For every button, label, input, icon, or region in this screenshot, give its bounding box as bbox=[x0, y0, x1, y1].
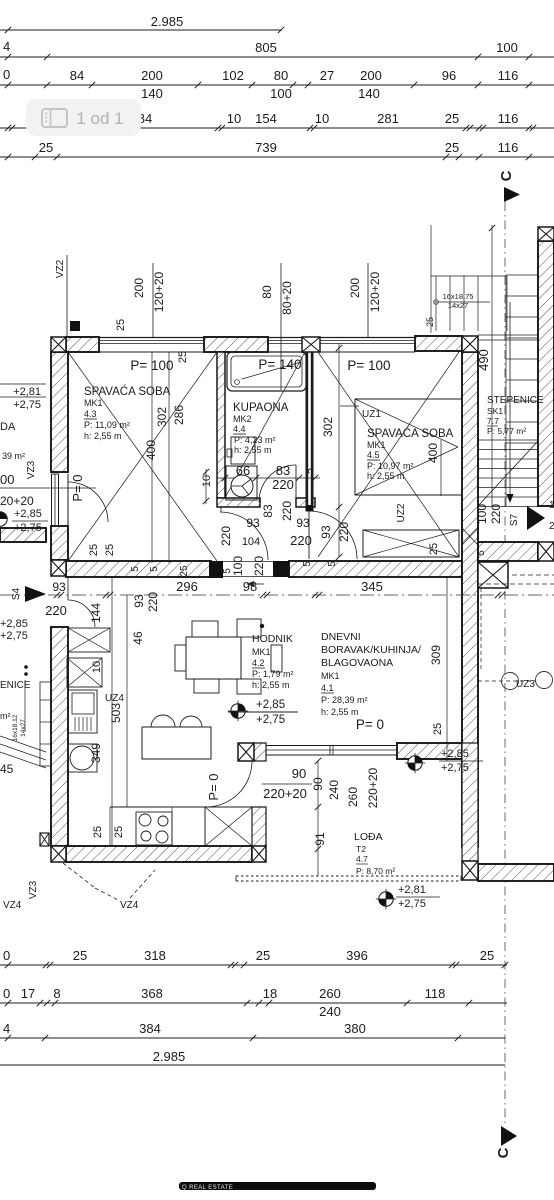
svg-text:25: 25 bbox=[425, 317, 435, 327]
svg-text:220: 220 bbox=[146, 592, 160, 612]
svg-text:220+20: 220+20 bbox=[366, 767, 380, 808]
svg-text:118: 118 bbox=[425, 986, 446, 1001]
svg-text:93: 93 bbox=[52, 580, 66, 594]
svg-text:MK1: MK1 bbox=[84, 398, 103, 408]
svg-text:25: 25 bbox=[480, 948, 494, 963]
svg-text:14x27: 14x27 bbox=[20, 719, 27, 737]
svg-text:20+20: 20+20 bbox=[0, 494, 34, 508]
svg-text:1: 1 bbox=[549, 500, 554, 511]
svg-text:LOĐA: LOĐA bbox=[354, 831, 383, 843]
svg-text:VZ3: VZ3 bbox=[26, 460, 37, 479]
svg-text:27: 27 bbox=[320, 68, 334, 83]
svg-text:SPAVAĆA SOBA: SPAVAĆA SOBA bbox=[367, 427, 454, 440]
svg-text:HODNIK: HODNIK bbox=[252, 633, 293, 645]
svg-text:345: 345 bbox=[361, 579, 383, 594]
svg-text:SK1: SK1 bbox=[487, 406, 503, 416]
svg-text:25: 25 bbox=[445, 140, 459, 155]
svg-text:93: 93 bbox=[246, 516, 260, 530]
svg-text:2.985: 2.985 bbox=[153, 1049, 186, 1064]
svg-text:98: 98 bbox=[243, 579, 257, 594]
svg-text:102: 102 bbox=[222, 68, 244, 83]
svg-text:384: 384 bbox=[139, 1021, 161, 1036]
svg-text:220: 220 bbox=[219, 526, 233, 546]
svg-text:P= 100: P= 100 bbox=[130, 358, 173, 373]
svg-text:260: 260 bbox=[346, 787, 360, 807]
svg-text:+2,75: +2,75 bbox=[13, 399, 41, 411]
svg-text:240: 240 bbox=[327, 780, 341, 800]
svg-text:+2,81: +2,81 bbox=[13, 386, 41, 398]
svg-text:+2,85: +2,85 bbox=[441, 748, 469, 760]
svg-text:25: 25 bbox=[113, 826, 125, 838]
svg-text:349: 349 bbox=[89, 743, 103, 763]
svg-text:STEPENICE: STEPENICE bbox=[487, 395, 544, 406]
svg-text:120+20: 120+20 bbox=[152, 271, 166, 312]
svg-text:h: 2,55 m: h: 2,55 m bbox=[234, 445, 272, 455]
svg-text:+2,85: +2,85 bbox=[0, 618, 28, 630]
svg-text:380: 380 bbox=[344, 1021, 366, 1036]
svg-text:45: 45 bbox=[0, 762, 14, 776]
svg-text:144: 144 bbox=[89, 603, 103, 623]
svg-text:00: 00 bbox=[0, 472, 14, 487]
svg-text:5: 5 bbox=[302, 561, 313, 567]
svg-text:80: 80 bbox=[260, 285, 274, 299]
svg-text:100: 100 bbox=[496, 40, 518, 55]
svg-text:m²: m² bbox=[0, 711, 11, 721]
svg-text:MK1: MK1 bbox=[321, 671, 340, 681]
svg-text:200: 200 bbox=[141, 68, 163, 83]
svg-text:368: 368 bbox=[141, 986, 163, 1001]
svg-text:66: 66 bbox=[236, 463, 250, 478]
svg-text:VZ3: VZ3 bbox=[28, 880, 39, 899]
svg-text:5: 5 bbox=[149, 566, 160, 572]
svg-text:MK2: MK2 bbox=[233, 414, 252, 424]
svg-text:+2,75: +2,75 bbox=[256, 714, 285, 726]
svg-text:200: 200 bbox=[132, 278, 146, 298]
svg-text:220: 220 bbox=[489, 504, 503, 524]
svg-text:0: 0 bbox=[3, 67, 10, 82]
svg-text:S7: S7 bbox=[509, 513, 520, 526]
svg-text:4.3: 4.3 bbox=[84, 409, 97, 419]
svg-text:P= 0: P= 0 bbox=[70, 474, 85, 501]
svg-text:SPAVAĆA SOBA: SPAVAĆA SOBA bbox=[84, 385, 171, 398]
svg-text:18: 18 bbox=[263, 986, 277, 1001]
svg-text:P= 0: P= 0 bbox=[206, 773, 221, 800]
svg-text:P: 8,70 m²: P: 8,70 m² bbox=[356, 866, 395, 876]
svg-text:h: 2,55 m: h: 2,55 m bbox=[252, 680, 290, 690]
svg-text:46: 46 bbox=[131, 631, 145, 645]
svg-text:200: 200 bbox=[360, 68, 382, 83]
svg-text:h: 2,55 m: h: 2,55 m bbox=[321, 707, 359, 717]
svg-text:16x18,12: 16x18,12 bbox=[12, 714, 19, 741]
svg-text:39 m²: 39 m² bbox=[2, 451, 25, 461]
svg-text:+2,85: +2,85 bbox=[14, 508, 42, 520]
svg-text:P= 100: P= 100 bbox=[347, 358, 390, 373]
svg-text:25: 25 bbox=[177, 351, 189, 363]
svg-text:Q REAL ESTATE: Q REAL ESTATE bbox=[182, 1185, 233, 1191]
svg-text:93: 93 bbox=[132, 594, 146, 608]
svg-text:+2,75: +2,75 bbox=[14, 522, 42, 534]
svg-text:25: 25 bbox=[432, 723, 444, 735]
svg-text:10: 10 bbox=[91, 661, 103, 673]
svg-text:P: 4,23 m²: P: 4,23 m² bbox=[234, 435, 276, 445]
svg-text:16x18,75: 16x18,75 bbox=[443, 292, 474, 301]
svg-text:220: 220 bbox=[280, 501, 294, 521]
svg-text:220: 220 bbox=[290, 533, 312, 548]
svg-text:25: 25 bbox=[428, 543, 440, 555]
svg-text:5: 5 bbox=[130, 566, 141, 572]
svg-text:100: 100 bbox=[475, 504, 489, 524]
svg-text:116: 116 bbox=[498, 111, 519, 126]
svg-text:96: 96 bbox=[442, 68, 456, 83]
svg-text:10: 10 bbox=[201, 475, 213, 487]
svg-text:P= 140: P= 140 bbox=[258, 357, 301, 372]
svg-text:2: 2 bbox=[549, 521, 554, 532]
svg-text:220+20: 220+20 bbox=[263, 786, 307, 801]
svg-text:25: 25 bbox=[256, 948, 270, 963]
svg-text:120+20: 120+20 bbox=[368, 271, 382, 312]
svg-text:25: 25 bbox=[92, 826, 104, 838]
svg-text:83: 83 bbox=[276, 463, 290, 478]
svg-text:302: 302 bbox=[155, 407, 169, 427]
svg-text:2.985: 2.985 bbox=[151, 14, 184, 29]
svg-text:140: 140 bbox=[141, 86, 163, 101]
svg-text:25: 25 bbox=[39, 140, 53, 155]
svg-text:VZ4: VZ4 bbox=[3, 900, 22, 911]
svg-text:490: 490 bbox=[476, 349, 491, 371]
svg-text:154: 154 bbox=[255, 111, 277, 126]
svg-text:P= 0: P= 0 bbox=[356, 717, 384, 732]
svg-text:8: 8 bbox=[53, 986, 60, 1001]
svg-text:VZ2: VZ2 bbox=[55, 259, 66, 278]
svg-text:80+20: 80+20 bbox=[280, 281, 294, 315]
svg-text:80: 80 bbox=[274, 68, 288, 83]
svg-text:286: 286 bbox=[172, 405, 186, 425]
svg-text:739: 739 bbox=[255, 140, 277, 155]
svg-text:1 od 1: 1 od 1 bbox=[76, 109, 123, 128]
svg-text:7.7: 7.7 bbox=[487, 416, 499, 426]
svg-text:100: 100 bbox=[270, 86, 292, 101]
svg-text:220: 220 bbox=[272, 477, 294, 492]
svg-text:17: 17 bbox=[21, 986, 35, 1001]
svg-text:302: 302 bbox=[321, 417, 335, 437]
svg-text:281: 281 bbox=[377, 111, 399, 126]
svg-text:10: 10 bbox=[315, 111, 329, 126]
svg-text:116: 116 bbox=[498, 140, 519, 155]
svg-text:400: 400 bbox=[426, 443, 440, 463]
svg-text:4.7: 4.7 bbox=[356, 854, 368, 864]
svg-text:+2,75: +2,75 bbox=[441, 762, 469, 774]
svg-text:10: 10 bbox=[227, 111, 241, 126]
svg-text:84: 84 bbox=[70, 68, 84, 83]
svg-text:VZ4: VZ4 bbox=[120, 900, 139, 911]
svg-text:296: 296 bbox=[176, 579, 198, 594]
svg-text:0: 0 bbox=[3, 986, 10, 1001]
svg-text:93: 93 bbox=[296, 516, 310, 530]
svg-text:4: 4 bbox=[3, 39, 10, 54]
svg-text:UZ3: UZ3 bbox=[516, 679, 535, 690]
svg-text:5: 5 bbox=[327, 561, 338, 567]
svg-text:90: 90 bbox=[311, 777, 325, 791]
svg-text:P: 1,79 m²: P: 1,79 m² bbox=[252, 669, 294, 679]
svg-text:14x27: 14x27 bbox=[448, 301, 468, 310]
svg-text:25: 25 bbox=[104, 544, 116, 556]
svg-text:140: 140 bbox=[358, 86, 380, 101]
svg-text:BORAVAK/KUHINJA/: BORAVAK/KUHINJA/ bbox=[321, 644, 421, 656]
svg-text:220: 220 bbox=[45, 603, 67, 618]
svg-text:P: 10,97 m²: P: 10,97 m² bbox=[367, 461, 414, 471]
svg-text:DNEVNI: DNEVNI bbox=[321, 631, 361, 643]
svg-text:4.1: 4.1 bbox=[321, 683, 334, 693]
svg-text:P: 28,39 m²: P: 28,39 m² bbox=[321, 695, 368, 705]
svg-text:116: 116 bbox=[498, 68, 519, 83]
svg-text:UZ2: UZ2 bbox=[396, 503, 407, 522]
svg-text:220: 220 bbox=[337, 522, 351, 542]
svg-text:BLAGOVAONA: BLAGOVAONA bbox=[321, 657, 393, 669]
svg-text:ENICE: ENICE bbox=[0, 680, 31, 691]
svg-text:4.5: 4.5 bbox=[367, 450, 380, 460]
svg-text:h: 2,55 m: h: 2,55 m bbox=[84, 431, 122, 441]
svg-text:5: 5 bbox=[304, 468, 316, 474]
svg-text:+2,81: +2,81 bbox=[398, 884, 426, 896]
svg-text:25: 25 bbox=[179, 565, 190, 577]
svg-text:5: 5 bbox=[476, 550, 487, 556]
svg-text:200: 200 bbox=[348, 278, 362, 298]
svg-text:+2,75: +2,75 bbox=[398, 898, 426, 910]
svg-text:240: 240 bbox=[319, 1004, 341, 1019]
svg-text:309: 309 bbox=[429, 645, 443, 665]
svg-text:318: 318 bbox=[144, 948, 166, 963]
svg-text:396: 396 bbox=[346, 948, 368, 963]
svg-text:83: 83 bbox=[261, 504, 275, 518]
svg-text:25: 25 bbox=[73, 948, 87, 963]
svg-text:805: 805 bbox=[255, 40, 277, 55]
svg-text:104: 104 bbox=[242, 536, 260, 548]
svg-text:+2,75: +2,75 bbox=[0, 630, 28, 642]
svg-text:90: 90 bbox=[292, 766, 306, 781]
svg-text:KUPAONA: KUPAONA bbox=[233, 402, 289, 414]
svg-text:25: 25 bbox=[88, 544, 100, 556]
svg-text:P: 11,09 m²: P: 11,09 m² bbox=[84, 420, 130, 430]
svg-text:h: 2,55 m: h: 2,55 m bbox=[367, 471, 405, 481]
svg-text:UZ4: UZ4 bbox=[105, 693, 124, 704]
svg-text:UZ1: UZ1 bbox=[362, 409, 381, 420]
svg-text:100: 100 bbox=[231, 556, 245, 576]
svg-text:400: 400 bbox=[144, 440, 158, 460]
svg-text:260: 260 bbox=[319, 986, 341, 1001]
svg-text:S4: S4 bbox=[11, 587, 22, 600]
svg-text:0: 0 bbox=[3, 948, 10, 963]
svg-text:C: C bbox=[495, 1147, 512, 1158]
svg-text:+2,85: +2,85 bbox=[256, 699, 285, 711]
svg-text:C: C bbox=[498, 170, 515, 181]
svg-text:4.4: 4.4 bbox=[233, 424, 246, 434]
svg-text:P: 5,77 m²: P: 5,77 m² bbox=[487, 426, 526, 436]
svg-text:91: 91 bbox=[313, 832, 327, 846]
svg-text:MK1: MK1 bbox=[367, 440, 386, 450]
svg-text:93: 93 bbox=[319, 525, 333, 539]
svg-text:25: 25 bbox=[115, 319, 127, 331]
svg-text:MK1: MK1 bbox=[252, 647, 271, 657]
svg-text:DA: DA bbox=[0, 421, 16, 433]
svg-text:220: 220 bbox=[252, 556, 266, 576]
svg-text:4.2: 4.2 bbox=[252, 658, 265, 668]
svg-text:503: 503 bbox=[109, 703, 123, 723]
svg-text:T2: T2 bbox=[356, 844, 366, 854]
svg-text:25: 25 bbox=[445, 111, 459, 126]
svg-text:4: 4 bbox=[3, 1021, 10, 1036]
